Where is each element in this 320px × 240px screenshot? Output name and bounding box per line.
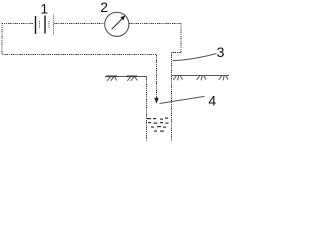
svg-text:3: 3 [217, 44, 225, 60]
svg-text:4: 4 [208, 92, 216, 108]
svg-text:2: 2 [100, 0, 108, 15]
svg-text:1: 1 [40, 1, 48, 17]
